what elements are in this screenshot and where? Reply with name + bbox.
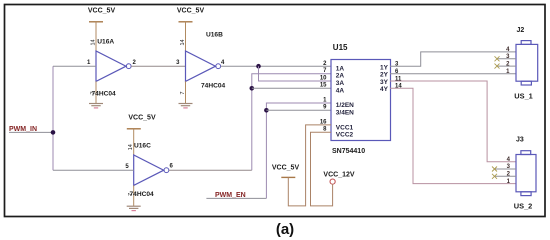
wire U16C input xyxy=(53,169,134,171)
ground symbol U16B xyxy=(179,104,193,108)
bubble U16C output xyxy=(164,168,169,173)
svg-text:3/4EN: 3/4EN xyxy=(336,109,354,116)
svg-text:J3: J3 xyxy=(516,137,524,144)
pin numbers J3 xyxy=(507,157,511,185)
svg-text:4A: 4A xyxy=(336,87,345,94)
svg-text:U16A: U16A xyxy=(97,38,114,45)
svg-text:14: 14 xyxy=(180,40,186,46)
pin stubs J2 xyxy=(497,58,516,60)
svg-text:1A: 1A xyxy=(336,65,345,72)
pin stubs J3 xyxy=(495,168,517,170)
wire VCC stem U16B pin 14 xyxy=(185,22,187,51)
pin numbers left of U15 xyxy=(320,61,327,133)
wire VCC stem U16C pin 14 xyxy=(133,129,135,155)
bubble U16B output xyxy=(216,64,221,69)
wire PWM_IN xyxy=(9,131,53,133)
wire VCC_12V to VCC2 pin 8 xyxy=(311,132,333,206)
wire U16C out up to 2A xyxy=(252,74,331,171)
svg-text:J2: J2 xyxy=(517,27,525,34)
wire PWM_EN xyxy=(206,197,266,199)
svg-text:VCC2: VCC2 xyxy=(336,132,354,139)
bubble U16A output xyxy=(126,64,131,69)
junction dot PWM_IN xyxy=(51,130,56,135)
junction dot 1A branch xyxy=(256,64,261,69)
ground symbol U16A xyxy=(89,104,103,108)
pin numbers J2 xyxy=(506,47,510,75)
svg-text:U16B: U16B xyxy=(206,31,223,38)
svg-text:VCC_5V: VCC_5V xyxy=(272,164,300,171)
svg-text:4Y: 4Y xyxy=(380,86,389,93)
wire VCC_5V to VCC1 pin 16 xyxy=(288,125,331,206)
svg-text:10: 10 xyxy=(320,75,327,81)
wire GND stem U16B pin 7 xyxy=(185,81,187,103)
connector J3 body xyxy=(516,151,536,196)
pin labels inside left xyxy=(336,64,389,138)
no-connect X J3 pin 2 xyxy=(492,174,497,179)
svg-text:VCC_5V: VCC_5V xyxy=(177,8,205,15)
wire branch down to 3A xyxy=(259,66,332,81)
chip body U15 xyxy=(331,60,391,141)
VCC_12V circle symbol xyxy=(330,179,335,184)
wire 1Y to J2 pin 4 xyxy=(390,52,516,66)
wire branch to 3/4EN xyxy=(266,109,331,111)
wire GND stem U16A pin 7 xyxy=(95,81,97,103)
svg-text:SN754410: SN754410 xyxy=(332,148,365,155)
svg-text:1/2EN: 1/2EN xyxy=(336,102,354,109)
wire U16C output to vertical xyxy=(169,169,252,171)
svg-text:US_1: US_1 xyxy=(514,92,533,101)
triangle U16C xyxy=(134,155,164,185)
svg-text:VCC1: VCC1 xyxy=(336,124,354,131)
ground symbol U16C xyxy=(127,206,141,210)
no-connect X J3 pin 3 xyxy=(492,167,497,172)
svg-text:15: 15 xyxy=(320,83,327,89)
wire U16A output to U16B input xyxy=(131,65,185,67)
svg-text:US_2: US_2 xyxy=(514,201,533,210)
junction dot 3/4EN xyxy=(264,108,269,113)
wire vertical PWM_IN bus xyxy=(52,66,54,170)
svg-text:7: 7 xyxy=(180,92,186,95)
wire U16A input xyxy=(53,65,96,67)
svg-text:(a): (a) xyxy=(276,221,294,238)
wire 4Y to J3 pin 1 xyxy=(390,88,516,183)
VCC_5V bar symbol above U16C xyxy=(127,128,141,130)
svg-text:VCC_5V: VCC_5V xyxy=(88,8,116,15)
no-connect X J2 pin 3 xyxy=(495,56,500,61)
wire 2Y to J2 pin 1 xyxy=(390,73,516,75)
svg-text:74HC04: 74HC04 xyxy=(92,90,117,97)
junction dot 4A branch xyxy=(250,86,255,91)
svg-text:1Y: 1Y xyxy=(380,64,389,71)
pin numbers right of U15 xyxy=(395,62,402,90)
svg-text:U16C: U16C xyxy=(134,143,151,150)
VCC_5V bar symbol above U16B xyxy=(179,21,193,23)
triangle U16B xyxy=(186,51,216,81)
svg-text:VCC_12V: VCC_12V xyxy=(323,172,354,179)
svg-text:74HC04: 74HC04 xyxy=(130,191,155,198)
wire U16B output to U15 1A xyxy=(221,65,331,67)
VCC_5V bar symbol bottom xyxy=(281,176,295,178)
VCC_5V bar symbol above U16A xyxy=(89,21,103,23)
svg-text:U15: U15 xyxy=(333,43,348,52)
wire 3Y to J3 pin 4 xyxy=(390,81,516,162)
no-connect X J2 pin 2 xyxy=(495,64,500,69)
wire VCC stem U16A pin 14 xyxy=(95,22,97,51)
connector J2 body xyxy=(516,41,538,85)
svg-text:VCC_5V: VCC_5V xyxy=(128,115,156,122)
wire branch to 4A xyxy=(252,87,331,89)
svg-text:74HC04: 74HC04 xyxy=(201,82,226,89)
op-amp style triangle U16A xyxy=(96,51,126,81)
wire GND stem U16C pin 7 xyxy=(133,185,135,206)
wire PWM_EN vertical to enables xyxy=(266,103,331,198)
svg-text:14: 14 xyxy=(91,40,97,46)
svg-text:3A: 3A xyxy=(336,80,345,87)
svg-text:3Y: 3Y xyxy=(380,79,389,86)
svg-text:2A: 2A xyxy=(336,73,345,80)
svg-text:2Y: 2Y xyxy=(380,72,389,79)
